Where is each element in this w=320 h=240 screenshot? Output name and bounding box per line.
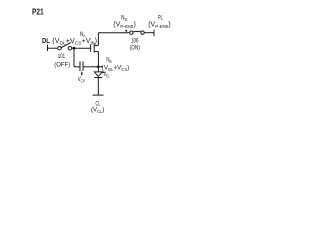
- svg-text:ND: ND: [121, 15, 127, 22]
- svg-text:(VDL+VCS+Vth): (VDL+VCS+Vth): [52, 36, 97, 47]
- svg-text:PL: PL: [158, 14, 163, 21]
- svg-text:101: 101: [58, 54, 65, 61]
- svg-text:DL: DL: [42, 37, 50, 45]
- svg-text:(OFF): (OFF): [54, 61, 70, 68]
- svg-text:(ON): (ON): [130, 45, 141, 52]
- svg-text:P21: P21: [32, 7, 44, 17]
